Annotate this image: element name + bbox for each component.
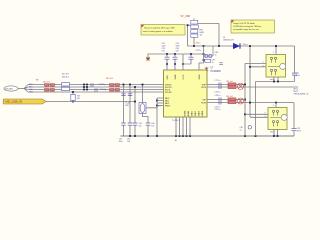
value label D1 [223, 37, 234, 42]
wire jack2 top pin [275, 103, 277, 108]
headphone jack J2 [266, 55, 286, 78]
capacitor C29 [95, 88, 97, 91]
svg-text:GND1: GND1 [192, 111, 194, 116]
svg-text:MK 2x1k: MK 2x1k [43, 82, 50, 84]
svg-text:C17 1u: C17 1u [215, 80, 221, 82]
IC left pin names group2 [165, 98, 171, 108]
net labels on mic bus [29, 84, 34, 94]
wire IC right out L [214, 84, 246, 86]
junction dot crystal top leg [142, 84, 144, 86]
svg-text:GND: GND [29, 92, 34, 94]
capacitor C17 (inline upper) [219, 83, 221, 90]
IC left pin stubs group2 [157, 98, 164, 106]
svg-text:MK 2x1k: MK 2x1k [106, 78, 113, 80]
svg-text:acceptable range for mic use: acceptable range for mic use [233, 28, 260, 31]
value labels ferrite beads [62, 73, 69, 78]
wire bypass [188, 25, 191, 46]
svg-text:4k7: 4k7 [77, 98, 80, 100]
capacitor C45 [146, 123, 155, 136]
no-ERC marker lower [238, 98, 244, 104]
wire 5Vbus top [229, 45, 295, 47]
ferrite bead FB1 [62, 83, 70, 86]
value labels C20 C22 [215, 107, 221, 112]
diode D1 [233, 43, 240, 49]
svg-text:PCM2906: PCM2906 [211, 71, 222, 73]
svg-text:L2(390nH) to integrate TSB int: L2(390nH) to integrate TSB into [233, 25, 262, 28]
resistor R31 [228, 83, 236, 86]
svg-text:ROW: ROW [201, 102, 206, 104]
wire rail drop [203, 46, 205, 63]
crystal X1 [139, 103, 146, 114]
capacitor C23 [292, 128, 302, 136]
svg-text:R18 4k7: R18 4k7 [62, 76, 69, 78]
wire riser B (jack pins 3) [250, 46, 266, 117]
IC bottom pin wires [176, 117, 190, 136]
wire jack1 sleeve [256, 81, 295, 83]
wire 5V feed [193, 19, 195, 47]
wire fan-out [24, 85, 28, 93]
junction dots jack2 sleeve [273, 135, 278, 137]
svg-text:5V_USB: 5V_USB [181, 15, 191, 18]
resistor R32 [228, 85, 236, 88]
capacitor C33 [165, 54, 170, 70]
wire jack1 sleeve drops [274, 77, 278, 82]
IC bottom pin names [185, 110, 205, 116]
wire drop to C42 [123, 85, 125, 124]
junction dots on rail [166, 53, 192, 65]
svg-text:SPK3CIQEM 1.0: SPK3CIQEM 1.0 [294, 93, 310, 95]
wire jack2 pin3 stub [250, 116, 268, 118]
ground symbol AGND right [205, 67, 208, 72]
svg-text:1n: 1n [215, 55, 217, 57]
wire IC right in R [214, 102, 295, 104]
junction dots on mic bus [72, 84, 88, 103]
svg-text:GND3: GND3 [199, 111, 201, 116]
svg-text:C22 1u: C22 1u [215, 109, 221, 111]
wire crystal right leg [143, 108, 158, 123]
junction dots lower wires [249, 102, 277, 104]
svg-text:AGND: AGND [187, 110, 190, 116]
svg-text:FMT0: FMT0 [165, 105, 171, 107]
junction dots MD strap [156, 100, 158, 107]
svg-text:Values to populate DNI caps, U: Values to populate DNI caps, USB [144, 27, 175, 30]
capacitor C37 [189, 54, 194, 64]
wire MIC_LINE_IN [46, 101, 135, 103]
junction dot jack1 top [275, 45, 277, 47]
net labels MIC1 MIC2 [294, 89, 300, 93]
svg-text:MK 1uF: MK 1uF [227, 96, 234, 98]
value labels rail caps column 2 [176, 43, 181, 53]
svg-text:A3: A3 [175, 139, 177, 142]
junction dots risers [244, 45, 251, 115]
wire jack2 sleeve drops [274, 130, 278, 137]
rail left stub to AGND [148, 54, 152, 57]
capacitor C21 [292, 72, 301, 81]
value label X1 [125, 102, 130, 107]
capacitor C40 [240, 126, 252, 132]
wire chain links [193, 24, 195, 34]
svg-text:MIC_LINE_IN: MIC_LINE_IN [6, 100, 23, 104]
svg-text:100n: 100n [119, 141, 123, 143]
wire lower right drop [293, 103, 295, 129]
svg-text:VCCL: VCCL [183, 74, 185, 79]
wire sleeve to ground drop [255, 82, 257, 137]
ferrite bead FB2 top [191, 25, 199, 28]
svg-text:MK 1uF: MK 1uF [227, 81, 234, 83]
wire VBUS pin jog [199, 63, 204, 70]
wire 5Vbus main [188, 45, 230, 47]
svg-text:FSYNC: FSYNC [165, 92, 172, 94]
connector CN1 (mic input oval) [4, 86, 18, 91]
capacitor C28 [91, 83, 93, 86]
svg-text:3: 3 [263, 65, 264, 67]
junction dots on ground bus [129, 135, 256, 137]
wire IC right out R [214, 86, 299, 88]
IC U7 body [164, 70, 208, 117]
value labels C28 C29 [99, 84, 107, 91]
svg-text:DGND: DGND [185, 110, 187, 116]
svg-text:ROW: ROW [201, 87, 206, 89]
capacitor C31 [128, 94, 132, 96]
capacitor C42 [119, 123, 126, 143]
capacitor C43 [127, 123, 132, 143]
resistor R34 [228, 100, 236, 103]
svg-text:10n: 10n [151, 126, 154, 128]
svg-text:GND4: GND4 [202, 111, 204, 116]
designator U7 PCM2906 [211, 68, 222, 73]
junction dots crystal left leg [134, 86, 136, 88]
wire riser A (jack pins 2) [245, 64, 266, 137]
svg-text:1u: 1u [240, 129, 242, 131]
svg-text:2: 2 [265, 113, 266, 115]
sheet note 2 [231, 20, 275, 33]
IC right pin stubs lower [207, 100, 214, 103]
capacitor C39 [204, 59, 215, 64]
value labels rail caps column 1 [162, 43, 167, 53]
resistor R30 [191, 34, 198, 37]
capacitor C41 (EMI) [219, 63, 223, 65]
svg-text:5Vbus: 5Vbus [196, 43, 201, 45]
svg-text:VDDP: VDDP [175, 74, 177, 80]
svg-text:C19 1u: C19 1u [215, 91, 221, 93]
wire jack1 top pin [275, 46, 277, 55]
resistor pack RN1 [45, 84, 55, 92]
wire C37 jog [183, 63, 191, 65]
wire mic bus line 4 [28, 91, 164, 93]
svg-text:1n: 1n [212, 62, 214, 64]
svg-text:5Vbus: 5Vbus [243, 44, 248, 46]
svg-text:work if analog power is a prob: work if analog power is a problem. [143, 31, 174, 33]
wire mic bus line 2 [28, 86, 164, 88]
wire crystal top leg [142, 85, 144, 103]
resistor R25 (to mic line) [71, 92, 80, 102]
ferrite bead FB3 [191, 30, 198, 34]
net flag MIC_LINE_IN [3, 99, 46, 104]
wire 5Vbus right drop [294, 46, 296, 73]
power rail [152, 53, 204, 55]
ground bus [121, 135, 295, 137]
svg-text:C29 33p: C29 33p [100, 89, 107, 91]
wire crystal left leg [134, 87, 136, 123]
svg-text:VDD: VDD [167, 75, 169, 80]
svg-text:CN1_MIC: CN1_MIC [5, 88, 14, 90]
capacitor C18 (inline lower) [219, 98, 221, 105]
junction dot bypass [187, 24, 189, 26]
wire VCCL stub [182, 54, 184, 70]
IC left pin names group1 [165, 84, 173, 94]
wire mic bus line 3 [28, 89, 164, 91]
svg-text:Using 5.6-6.2V P4 diode: Using 5.6-6.2V P4 diode [233, 23, 256, 25]
fuse F1 [191, 20, 198, 24]
wire mic bus line 1 [28, 84, 164, 86]
value labels C38 [215, 52, 218, 57]
svg-text:1: 1 [273, 105, 274, 107]
wire usb shield branch [198, 24, 219, 47]
wire drop to C43 [129, 85, 131, 124]
mic jack J3 [268, 108, 287, 130]
wire from CN1 to fan-out [18, 88, 24, 90]
svg-text:10n: 10n [139, 126, 142, 128]
IC right pin stubs upper [207, 85, 214, 88]
ground symbol AGND left [146, 56, 150, 61]
value labels chain [200, 29, 205, 36]
wire IC right in L [214, 99, 246, 101]
no-ERC marker upper [237, 83, 243, 89]
svg-text:C18 1u: C18 1u [215, 95, 221, 97]
svg-text:1N4148LI-TR: 1N4148LI-TR [223, 40, 234, 42]
IC top pin names [167, 74, 201, 80]
zener diode D3 [209, 54, 212, 57]
ferrite bead FB2 [62, 87, 70, 90]
svg-text:C37 1n: C37 1n [196, 50, 202, 52]
svg-text:1: 1 [273, 52, 274, 54]
svg-text:R17 4k7: R17 4k7 [62, 73, 69, 75]
IC right pin names [201, 84, 207, 104]
capacitor C44 [133, 123, 142, 136]
svg-text:VBUS: VBUS [199, 74, 201, 80]
resistor R33 [228, 98, 236, 101]
resistor pack RN2 [110, 84, 120, 92]
junction dots jack1 sleeve [273, 81, 279, 83]
svg-text:C28 33p: C28 33p [99, 84, 106, 86]
svg-text:3: 3 [265, 116, 266, 118]
capacitor C34 [173, 54, 178, 70]
svg-text:2: 2 [263, 62, 264, 64]
wire zener row [204, 46, 214, 56]
svg-text:12M: 12M [125, 105, 129, 107]
junction dots on 5V feed [193, 45, 220, 61]
wire to jack2 pin2 [245, 113, 268, 115]
zener diode D2 [205, 54, 208, 57]
junction dots on drops [123, 84, 131, 86]
capacitor C30 [121, 94, 125, 96]
sheet note 1 [141, 25, 185, 36]
svg-text:GND2: GND2 [195, 111, 197, 116]
wire MD-pin strap [156, 98, 158, 136]
